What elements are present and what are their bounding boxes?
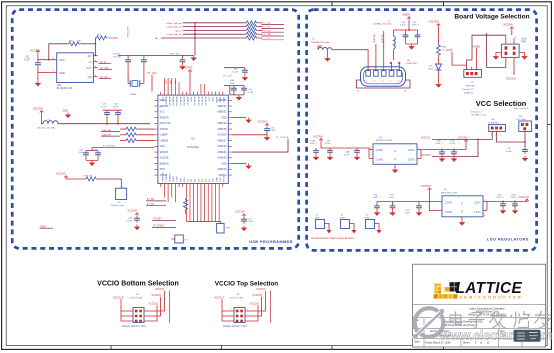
svg-text:BDBUS5: BDBUS5 [179,97,181,107]
svg-text:Default: Open: Default: Open [111,204,125,207]
resistor R35 (vertical) [184,199,188,215]
wire J10 pin2 USB_DM [374,34,376,71]
capacitor C61 [450,140,457,156]
svg-text:GND: GND [216,177,218,182]
svg-text:USB PWR: USB PWR [407,63,418,65]
wire GND pin row [38,72,57,74]
svg-text:BDBUS4: BDBUS4 [175,97,177,107]
capacitor C62 [373,194,381,210]
svg-text:VCC5V0: VCC5V0 [421,185,431,188]
capacitor C49b [325,140,333,154]
svg-text:USB5V: USB5V [473,45,481,48]
svg-text:GND: GND [221,117,226,119]
svg-text:VCCIO T SEL: VCCIO T SEL [230,297,244,299]
svg-text:BCBUS0: BCBUS0 [193,97,195,107]
svg-text:2: 2 [146,309,147,311]
header J40 CORE SEL [488,119,506,136]
resistor R25 [245,36,262,40]
svg-text:47uF_T: 47uF_T [412,25,420,27]
ground (C66) [512,208,519,214]
capacitor C42 [101,104,110,124]
svg-text:ADBUS5: ADBUS5 [217,128,227,131]
note Default VCCIO top [223,325,247,328]
svg-text:VCCIO B SEL: VCCIO B SEL [129,297,144,299]
svg-text:VCC1V2: VCC1V2 [519,196,529,199]
wire J10 pin3 USB_DP [382,29,410,71]
title block size row [415,330,507,338]
watermark group [413,308,552,343]
svg-text:JTAG_CON: JTAG_CON [127,26,130,38]
node VCC2V5 (J5) [148,294,161,316]
title block address lines [468,308,506,317]
ground (J9 right) [519,53,528,60]
jumper J6 [111,187,127,207]
wire VCCIO B rail [169,291,171,324]
svg-text:VCC3V0: VCC3V0 [56,173,66,176]
svg-text:GND: GND [190,97,192,102]
node FT_TCK [262,23,285,25]
svg-text:VCC: VCC [59,58,65,62]
node FT_D1 [146,204,166,206]
svg-text:0.1uF: 0.1uF [24,59,30,61]
ground (C38) [242,75,249,81]
svg-text:fpb_oe: fpb_oe [175,30,182,32]
power flag VCC3V0 (C44) [258,120,269,126]
ground (C48) [313,155,320,161]
svg-text:1: 1 [231,309,232,311]
power flag VCC3V0 (C49) [128,210,139,216]
ground (C50) [241,226,248,232]
ground (C60) [439,156,446,162]
svg-text:GND: GND [63,110,69,113]
svg-text:(USB 5V): (USB 5V) [464,92,474,94]
resistor R27 [120,127,154,131]
ground (C64) [416,210,423,216]
resistor R31 [48,41,96,61]
power flag VCC3V0 (R32) [109,37,119,40]
power flag VCC3V0 (L3) [33,108,43,124]
svg-text:0.1uF: 0.1uF [325,143,331,145]
header J8 PWR SEL [463,67,482,95]
wire U5 output rail [421,149,466,159]
Lattice logo checker [434,282,459,298]
svg-text:ACBUS1: ACBUS1 [217,151,227,154]
wire VCC pin row [38,59,57,61]
svg-text:FT_VCCIOB: FT_VCCIOB [276,137,289,139]
svg-text:3.3VO: 3.3VO [408,159,415,162]
node GND PAD [522,39,527,44]
capacitor C36 [113,53,132,83]
svg-text:VCCIO Bottom Selection: VCCIO Bottom Selection [97,280,179,287]
svg-text:0.1uF: 0.1uF [248,221,254,223]
power flag VCC5V0 (U5 in) [313,135,369,158]
ground (C39) [179,64,186,70]
svg-text:VCCIO_B: VCCIO_B [113,296,124,299]
svg-text:EEDATA: EEDATA [160,105,169,108]
capacitor C66 [511,194,519,208]
svg-text:GND: GND [522,39,527,41]
svg-text:RD#: RD# [184,177,186,182]
wire FT data drops [164,187,175,202]
svg-text:VCC: VCC [160,112,165,114]
node FT_TDO [262,30,285,32]
svg-text:Default: 1-2: Default: 1-2 [471,110,483,113]
svg-text:ACBUS3: ACBUS3 [217,168,227,171]
svg-text:(VCORE = 1v2): (VCORE = 1v2) [471,115,487,117]
svg-text:100MHz, 200 ohms: 100MHz, 200 ohms [373,24,393,26]
header J5 VCCIO B SEL [129,294,148,322]
power flag VCC3V0 (U2 top) [183,67,193,92]
ground (U6 tab) [459,220,466,226]
svg-text:(A): (A) [155,37,158,40]
resistor R29 [120,139,154,143]
svg-text:BCBUS1: BCBUS1 [197,97,199,107]
capacitor C44 [232,126,276,134]
svg-text:CORE SEL: CORE SEL [488,122,500,124]
svg-text:0.1uF: 0.1uF [506,151,512,153]
svg-text:CLK: CLK [86,66,91,70]
svg-text:47uF_T: 47uF_T [373,197,381,199]
wire bottom bus horizontal [186,222,220,224]
svg-text:C36 22p: C36 22p [113,53,122,55]
svg-text:QC: QC [87,54,91,58]
node FT_VCCIOB [232,137,289,152]
wire QC net [94,38,96,56]
svg-text:C39 0.1uF: C39 0.1uF [169,53,180,55]
svg-text:PWREN#: PWREN# [162,172,164,182]
wire jtag vertical tap [194,22,196,56]
svg-text:3.3VIN: 3.3VIN [376,159,384,162]
capacitor C40 [224,80,244,95]
svg-text:LATTICE: LATTICE [456,280,523,297]
capacitor C64 [405,202,422,215]
resistor R28 [120,133,154,137]
svg-text:4.5uF: 4.5uF [113,106,119,108]
U2 left pin stubs [154,100,158,175]
svg-text:43K: 43K [77,41,81,43]
watermark char shao [511,311,530,328]
svg-text:ACBUS0: ACBUS0 [217,145,227,148]
svg-text:FT_CLK: FT_CLK [224,75,233,77]
node USB_DM [101,130,120,132]
power flag VCC3V0 (R34) [56,173,68,179]
capacitor C47 [506,147,528,154]
svg-text:U2: U2 [191,137,195,141]
svg-text:G: G [461,202,463,205]
capacitor C43 [103,104,122,124]
svg-text:LDO REGULATORS: LDO REGULATORS [487,237,529,242]
capacitor C63 [389,194,396,210]
power flag VCC3V3 (U5 out) [458,137,468,150]
capacitor C39 [169,53,185,64]
node VCCIO_T [214,296,230,321]
ground (C44) [264,135,271,141]
title block date row [415,341,491,345]
svg-text:0.1uF: 0.1uF [389,197,395,199]
ground (L2) [324,50,331,62]
resistor R30 (vertical) [437,44,447,64]
watermark char fa [490,311,508,328]
svg-text:VCCIO_T: VCCIO_T [214,296,225,299]
svg-text:47uF_T: 47uF_T [497,197,505,199]
node USB5V (J8) [473,45,481,69]
svg-text:wkup2_fpb_noe: wkup2_fpb_noe [167,23,183,25]
wire J10 shield [357,80,411,93]
capacitor C41 [230,86,254,95]
watermark url text [440,327,553,342]
node FT_CLK (C38) [224,75,233,77]
svg-text:47uF_T: 47uF_T [436,143,444,145]
wire U6 output rail [487,201,527,211]
svg-text:GND: GND [59,71,65,75]
svg-text:BDBUS2: BDBUS2 [168,97,170,107]
svg-text:spread across board, easy acce: spread across board, easy access [311,236,354,240]
svg-text:80-Q4321-R21: 80-Q4321-R21 [57,87,73,90]
svg-text:1.2VIN: 1.2VIN [445,201,453,204]
svg-text:VCC3V0: VCC3V0 [109,37,119,40]
test point G5 [172,235,189,243]
svg-text:ADBUS2: ADBUS2 [217,111,227,114]
no-connect X pin5 [398,62,400,71]
ground (U5 tab) [392,168,399,174]
node FT_OE [262,38,285,40]
ground (C47) [522,156,529,162]
node FT_VCC [148,72,158,91]
no-connect X pin4 [390,62,392,71]
wire VCCIO T rail [270,291,272,324]
svg-text:0.1uF: 0.1uF [248,92,254,94]
note Default VCORE [471,110,487,116]
svg-text:4.7uF: 4.7uF [344,154,350,156]
capacitor C35 [406,22,421,44]
node VCC3V3 (J4) [249,288,266,311]
svg-text:USB5V: USB5V [402,14,411,17]
capacitor C60 [436,140,445,156]
node FT_D07 [152,219,176,221]
power flag VCC3V3 (J9 out) [506,65,516,80]
svg-text:VCC3V3: VCC3V3 [421,154,431,157]
svg-text:GND: GND [222,97,224,102]
inductor L2 [311,39,332,50]
title block frame [413,264,546,347]
svg-text:SLEEP#: SLEEP# [170,173,172,182]
svg-text:DC5V: DC5V [447,49,454,52]
ground (C40 C41) [236,95,243,101]
node USB_DP [101,134,120,136]
svg-text:GND: GND [221,163,226,165]
ground flag GND net [40,224,54,228]
capacitor C65 [497,194,506,208]
svg-text:VCC5V0: VCC5V0 [313,135,323,138]
wire GND right of U2 lower [232,163,246,165]
test point J2 GND [340,215,357,234]
svg-text:D: D [90,60,92,64]
wire VCC rail [58,123,150,125]
svg-text:G: G [394,150,396,153]
wire PWR select mid [486,33,506,67]
capacitor C38 [224,68,248,75]
svg-text:0.1uF: 0.1uF [270,130,276,132]
wire VCCJ node [497,132,526,148]
svg-text:3V3OUT: 3V3OUT [160,129,170,131]
U2 bottom pin stubs [161,184,223,188]
svg-text:VCC3V3: VCC3V3 [256,288,266,291]
resistor R34 [66,176,121,189]
svg-text:VCC3V0: VCC3V0 [128,210,138,213]
crystal Y1 [127,78,144,96]
node wkup3_fpb_ack [167,27,183,29]
svg-text:AVCC: AVCC [218,97,221,103]
svg-text:PWR SEL: PWR SEL [466,86,477,88]
svg-text:3.3VIN: 3.3VIN [376,149,384,152]
U2 left pin names [160,100,171,177]
svg-text:Lattice Semiconductor Corporat: Lattice Semiconductor Corporation [469,308,505,311]
svg-text:ADBUS1: ADBUS1 [217,105,227,108]
ground flag GND (L3) [63,110,72,119]
svg-text:FT_VCC: FT_VCC [148,72,158,75]
LDO regulators section dashed box [307,10,537,251]
IC U2 FT2232 [158,95,228,183]
node FT_DONE [152,226,176,228]
svg-text:VCC: VCC [161,97,163,102]
svg-text:SI/WUB: SI/WUB [160,152,169,154]
svg-text:QS: QS [88,75,92,79]
svg-text:RESET#: RESET# [160,117,170,119]
ground (C49b) [327,155,334,161]
svg-text:R34 2K2: R34 2K2 [84,176,93,178]
frame tick top 2 [443,1,445,6]
watermark char zi [469,313,485,329]
ground (D4) [435,82,442,88]
wire U2 top pullup drops [164,78,204,92]
svg-text:VCC1V2: VCC1V2 [421,137,431,140]
svg-text:Note: see pg 3: Note: see pg 3 [514,107,529,110]
svg-text:VCC5V0: VCC5V0 [429,21,439,24]
svg-text:USBDM: USBDM [160,140,168,142]
svg-text:PAD: PAD [522,41,527,44]
svg-text:BDBUS6: BDBUS6 [182,97,184,107]
svg-text:Default: 1-2: Default: 1-2 [463,88,475,91]
svg-text:MIC5209-1.2YM: MIC5209-1.2YM [441,192,457,194]
svg-text:Board Voltage Selection: Board Voltage Selection [454,13,529,20]
power flag VCC5V0 (J9) [503,24,514,36]
resistor R24 [245,32,262,36]
svg-text:C32: C32 [25,57,30,59]
ground (U30) [35,81,42,87]
svg-text:VCCIO Top Selection: VCCIO Top Selection [215,280,279,287]
ground (C34 C35) [408,44,415,50]
node JTAG rotated label [127,26,130,38]
capacitor C48 [310,140,319,154]
VCCIO Top selection circuit [214,288,271,328]
svg-text:USB PROGRAMMER: USB PROGRAMMER [249,239,293,244]
resistor R32 [95,34,107,40]
header J4 VCCIO T SEL [230,294,249,322]
wire GND right of U2 [232,117,246,119]
wire PWR select loop [467,35,506,69]
Lattice logo wordmark [456,280,523,297]
node VCC1V2 (J4) [249,302,259,321]
ground (C61) [451,156,458,162]
frame tick bottom row [111,346,444,350]
svg-text:12MHz: 12MHz [130,94,137,96]
ground (C4A) [354,155,361,161]
svg-text:VCC3V0: VCC3V0 [258,120,268,123]
note spread across board [311,236,354,240]
note Default VCCIO bottom [122,325,146,328]
watermark char dian [450,312,461,325]
svg-text:Date:: Date: [415,341,421,344]
USB connector J10 [361,60,418,86]
test point J1 GND [315,215,332,234]
regulator U6 [438,189,487,220]
svg-text:USB_DM: USB_DM [374,34,376,43]
svg-text:VCC1V2: VCC1V2 [250,302,260,305]
svg-text:wkup0_fpb_noe: wkup0_fpb_noe [167,34,183,36]
wire crystal top rail [118,54,194,56]
node DC5V [447,49,467,65]
svg-text:XTIN: XTIN [160,169,166,171]
watermark elecfans net block [514,330,541,342]
test point J3 GND [365,215,382,234]
node VCC2V5 (J4) [249,294,262,316]
svg-text:BCBUS2: BCBUS2 [200,97,202,107]
svg-text:VCC3V0: VCC3V0 [183,67,193,70]
U2 right pin names [217,99,227,177]
capacitor C37 [113,55,147,83]
wire jtag bus rows [161,23,245,38]
svg-text:0.1uF: 0.1uF [127,220,133,222]
svg-text:VCC1V2: VCC1V2 [149,302,159,305]
svg-text:C37 22p: C37 22p [113,56,122,58]
node FT_D0 [146,199,166,201]
resistor labels (pullups) [166,79,177,84]
test point TP6 [213,224,230,234]
svg-text:AGND: AGND [215,97,218,104]
inductor L1 [373,21,418,61]
USB programmer section dashed box [12,10,299,249]
U2 top pin names [161,97,224,107]
ground (C63) [389,210,396,216]
svg-text:VCC3V3: VCC3V3 [155,288,165,291]
svg-text:0.1uF: 0.1uF [233,71,239,73]
resistor R23 [245,28,262,32]
jumper pad J9 [501,35,519,65]
regulator U5 [369,137,421,167]
svg-text:RXF#: RXF# [173,175,175,181]
svg-text:3.3VO: 3.3VO [408,149,415,152]
svg-text:ACBUS2: ACBUS2 [217,157,227,160]
svg-text:Default: VCCIO = 3V3: Default: VCCIO = 3V3 [122,325,146,328]
svg-text:D: D [461,210,463,213]
U2 bottom pin names [162,172,225,182]
svg-text:2: 2 [247,309,248,311]
svg-text:VCCIOA: VCCIOA [218,134,227,137]
svg-text:C4A: C4A [345,151,350,154]
svg-text:D: D [394,158,396,161]
svg-text:FT2232A: FT2232A [187,145,199,149]
resistor R22 [245,25,262,29]
svg-text:VCCIOB: VCCIOB [160,158,169,160]
capacitor C4A [344,148,360,156]
node VCC1V2 (J40) [421,132,492,140]
ground (U2 right 1) [245,118,252,124]
capacitor C34 [400,22,408,39]
power flag VCC3V0 (U30) [30,50,40,54]
capacitor C50 [241,217,254,224]
node VCC1V2 (J5) [148,302,158,321]
capacitor C49 [127,216,140,223]
